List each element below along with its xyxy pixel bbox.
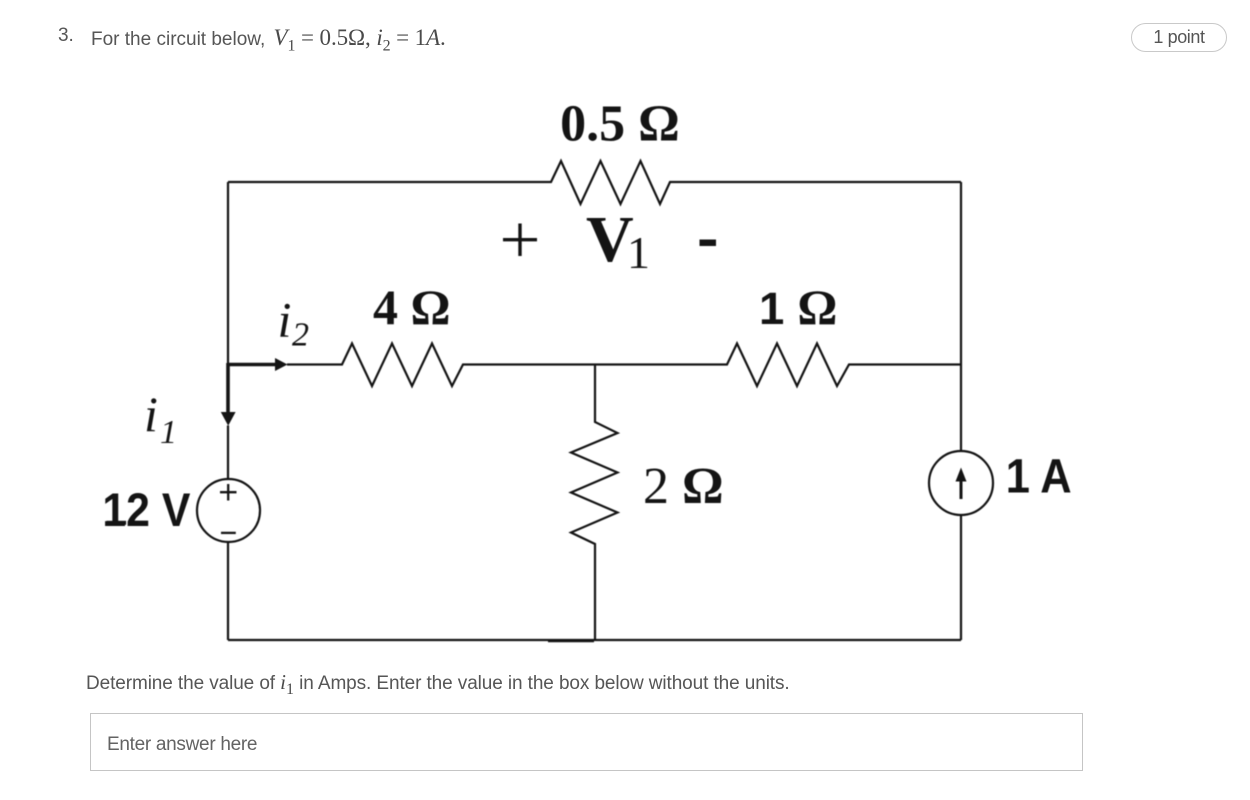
svg-text:2 Ω: 2 Ω [643,458,724,515]
voltage source plus sign [220,484,237,501]
label 12 V foot of digit 1 [107,521,127,525]
wire: left vertical between i1 arrow and source [227,426,229,479]
current arrow i1 (head) [221,412,236,426]
svg-text:1: 1 [160,414,177,451]
wire: left vertical below source to bottom corner [227,542,229,641]
prompt text below circuit [86,670,790,695]
1 point pill [1131,23,1227,52]
wire: middle horizontal with 4 ohm and 1 ohm resistor zigzags [287,344,961,387]
wire: top side with 0.5 ohm resistor zigzag [228,161,961,204]
wire: right vertical lower [960,515,962,640]
svg-text:1: 1 [759,283,784,334]
resistor R3 2ohm: middle vertical wire and zigzag [571,365,618,640]
svg-text:Ω: Ω [797,279,837,335]
voltage source V 12V circle [197,479,260,542]
current source arrow head [956,468,967,482]
question number [58,25,74,47]
current source 1A circle [929,451,993,515]
svg-text:i: i [278,292,292,348]
question text [91,25,446,51]
label 1 ohm: foot of digit 1 [763,320,783,324]
svg-text:4 Ω: 4 Ω [373,279,451,335]
current source arrow stem [960,478,963,499]
wire: bottom side [228,639,961,641]
current arrow i1 (stem) [226,363,230,413]
svg-text:12 V: 12 V [102,483,191,536]
answer input box [90,713,1083,771]
label plus of V1 [503,224,537,257]
svg-text:1 A: 1 A [1006,450,1072,503]
svg-text:0.5 Ω: 0.5 Ω [560,96,680,153]
wire: right vertical upper [960,182,962,451]
wire: bottom doubled segment near middle node [548,640,594,643]
voltage source minus sign [221,532,236,534]
svg-text:1: 1 [627,227,650,278]
current arrow i2 (head) [275,358,288,371]
svg-text:2: 2 [292,317,309,354]
current arrow i2 (stem) [228,363,276,367]
label minus of V1 [700,239,717,246]
svg-text:i: i [144,386,158,442]
label 1 A foot of digit 1 [1009,488,1028,492]
wire: left vertical upper (top corner to middle junction) [227,182,229,365]
